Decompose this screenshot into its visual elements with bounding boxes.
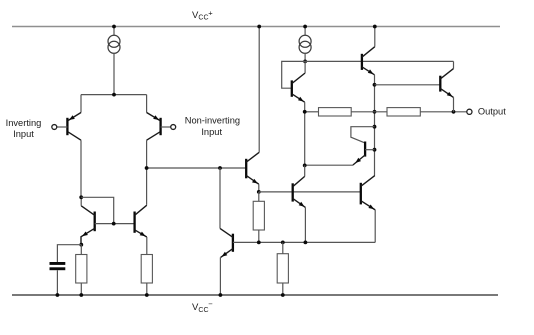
node A junction — [303, 60, 307, 64]
wire VCC+ to I2 — [304, 27, 306, 36]
wire I2 to node A — [304, 53, 306, 61]
node R5/R6 junction — [373, 110, 377, 114]
node R4 top junction — [281, 241, 285, 245]
node R4/VCC- junction — [281, 293, 285, 297]
svg-text:−: − — [208, 300, 213, 309]
transistor Q8 (top right NPN) — [362, 27, 375, 176]
resistor R6 — [387, 108, 420, 116]
transistor Q5 (gain stage NPN) — [246, 27, 259, 192]
transistor Q10 (NPN, base on Q5 emitter line) — [293, 165, 306, 242]
wire R4 to base bus — [282, 242, 284, 253]
node Q1 collector / Q3 junction — [79, 195, 83, 199]
resistor R3 — [253, 201, 264, 230]
node VCC+/I2 junction — [303, 25, 307, 29]
resistor R1 — [76, 255, 87, 284]
node Q5 emitter junction — [257, 190, 261, 194]
resistor R4 — [277, 254, 288, 283]
transistor Q3 (mirror left NPN) — [81, 197, 95, 244]
svg-text:Non-inverting: Non-inverting — [185, 116, 240, 126]
wire R2 to VCC- — [146, 283, 148, 295]
wire Q2 collector to Q5 base — [147, 167, 247, 169]
wire Q3 collector-base tie — [81, 197, 114, 223]
wire R5 to R6 — [351, 111, 387, 113]
capacitor C1 — [50, 262, 66, 265]
node VCC+/I1 junction — [112, 25, 116, 29]
node R1/VCC- junction — [79, 293, 83, 297]
wire R6 to output — [420, 111, 467, 113]
transistor Q4 (mirror right NPN) — [135, 205, 147, 254]
power rail VCC+ — [12, 26, 500, 28]
node Q7 emitter/R5 junction — [303, 110, 307, 114]
svg-text:Inverting: Inverting — [6, 118, 42, 128]
node Q8 collector/VCC+ junction — [373, 25, 377, 29]
node Q6 emitter/VCC- junction — [219, 293, 223, 297]
node R3 bottom junction — [257, 241, 261, 245]
wire VCC+ to I1 — [113, 27, 115, 36]
svg-text:+: + — [208, 9, 213, 18]
node Q7 emitter bottom junction — [303, 164, 307, 168]
node mirror base junction — [112, 222, 116, 226]
wire emitter node to capacitor — [57, 245, 81, 262]
wire R1 to VCC- — [80, 283, 82, 295]
transistor Q2 (non-inverting input PNP) — [147, 95, 171, 205]
node emitter bus junction — [112, 93, 116, 97]
current source I1 — [108, 35, 120, 47]
svg-text:Input: Input — [13, 129, 34, 139]
node Q5 base / Q6 collector junction — [218, 166, 222, 170]
wire Q5 emitter to R3 — [258, 192, 260, 201]
transistor Q11 (right NPN) — [361, 176, 375, 243]
resistor R5 — [319, 108, 352, 116]
node Q3 emitter junction — [79, 243, 83, 247]
terminal inverting input — [52, 125, 57, 130]
wire Q3 emitter to R1 — [80, 245, 82, 255]
node Q2 collector junction — [145, 166, 149, 170]
wire Q6 base bus — [233, 241, 375, 243]
svg-text:Input: Input — [201, 127, 222, 137]
transistor Q12 (output NPN) — [375, 61, 454, 111]
svg-text:Output: Output — [478, 107, 506, 117]
node Q8 emitter / Q10 base junction — [373, 83, 377, 87]
svg-text:CC: CC — [198, 307, 208, 314]
wire node A bus — [305, 60, 453, 62]
wire R3 to base bus — [258, 230, 260, 242]
transistor Q9 (diode-connected NPN, VBE drop) — [305, 127, 375, 166]
node Q9 base tap junction — [373, 148, 377, 152]
wire diff-pair emitter bus — [81, 94, 147, 96]
transistor Q7 (diode-connected NPN under I2) — [282, 61, 305, 165]
node output junction — [452, 110, 456, 114]
node Q9 collector tap junction — [373, 125, 377, 129]
wire R4 to VCC- — [282, 283, 284, 295]
terminal non-inverting input — [171, 125, 176, 130]
terminal output — [467, 109, 472, 114]
transistor Q6 (lower middle NPN) — [220, 168, 233, 295]
wire Q7 emitter to R5 — [305, 111, 319, 113]
node capacitor/VCC- junction — [56, 293, 60, 297]
current source I2 — [299, 35, 311, 47]
resistor R2 — [141, 255, 152, 284]
transistor Q1 (inverting input PNP) — [57, 95, 81, 198]
wire I1 to diff-pair emitters — [113, 53, 115, 94]
node R2/VCC- junction — [145, 293, 149, 297]
wire capacitor to VCC- — [56, 270, 58, 295]
wire mirror base bus — [95, 223, 135, 225]
svg-text:CC: CC — [198, 15, 208, 22]
node Q10 emitter junction — [304, 241, 308, 245]
node Q5 collector/VCC+ junction — [257, 25, 261, 29]
power rail VCC- — [12, 294, 498, 296]
wire Q5 emitter to Q11 base — [259, 191, 361, 193]
